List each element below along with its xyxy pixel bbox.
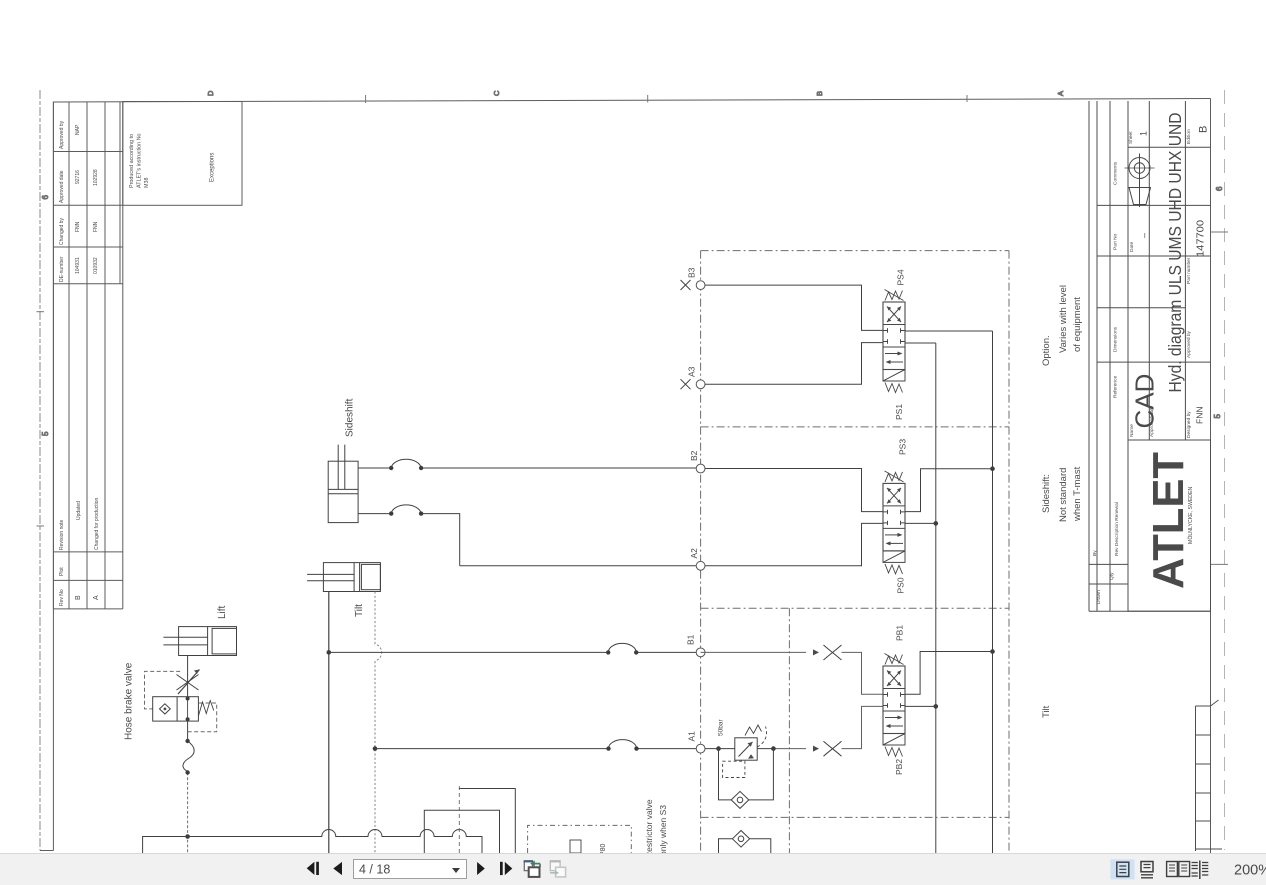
svg-text:FNN: FNN — [93, 221, 99, 232]
hose brake restrictor X — [177, 670, 200, 695]
svg-text:A2: A2 — [689, 548, 699, 559]
port A2 — [696, 561, 705, 570]
svg-text:Part number: Part number — [1186, 257, 1192, 284]
ATLET logo — [1144, 452, 1194, 589]
port A3 — [696, 380, 705, 389]
svg-text:B1: B1 — [686, 634, 696, 645]
annotation Sideshift note — [1041, 466, 1083, 522]
ATLET logo box — [1128, 440, 1211, 611]
wire PS4 T-port to tank line — [905, 342, 936, 344]
svg-text:Qty: Qty — [1109, 572, 1115, 580]
pressure line P (vertical) — [992, 331, 994, 853]
relief valve 50bar at A1 — [723, 725, 767, 778]
svg-text:Tilt: Tilt — [354, 604, 365, 617]
junction PS3/tank line — [934, 521, 939, 526]
check valve bypass at A1 — [719, 749, 774, 809]
svg-text:PS4: PS4 — [896, 269, 906, 285]
svg-text:Approved by: Approved by — [1186, 330, 1192, 358]
port A1 — [696, 744, 705, 753]
valve PS4/PS1 — [883, 290, 905, 393]
sheet right outer trim edge — [1224, 90, 1226, 850]
svg-text:Rev Description Renewal: Rev Description Renewal — [1114, 502, 1120, 556]
svg-text:50bar: 50bar — [718, 719, 725, 736]
svg-text:Reference: Reference — [1113, 376, 1119, 398]
wire tilt cylinder right port down (with hop over B1 line) — [375, 592, 382, 854]
svg-text:Varies with level: Varies with level — [1058, 285, 1069, 353]
svg-text:5: 5 — [1213, 414, 1222, 419]
wire A3 to valve PS1 — [705, 343, 883, 385]
svg-text:ATLET: ATLET — [1144, 452, 1193, 589]
svg-text:FNN: FNN — [75, 221, 81, 232]
svg-text:6: 6 — [1215, 186, 1224, 191]
svg-text:PS3: PS3 — [898, 439, 908, 455]
svg-text:Drawn: Drawn — [1096, 590, 1102, 604]
zone tick left 2 — [37, 525, 45, 527]
wire PS4 P-port to pressure line — [905, 330, 993, 332]
wire PS3 T-port to tank line — [905, 522, 936, 524]
section divider tilt/pump (dash-dot) — [701, 816, 1009, 818]
svg-text:–: – — [1139, 233, 1149, 238]
wire B2 to valve PS3 — [705, 469, 883, 512]
continuous scroll layout — [1141, 862, 1153, 878]
svg-text:B: B — [75, 595, 82, 600]
section divider option/sideshift (dash-dot) — [701, 426, 1009, 428]
junction tilt right / A1 line — [373, 746, 378, 751]
zone tick right 1 — [1211, 231, 1229, 233]
svg-text:Approved date: Approved date — [59, 170, 65, 203]
previous page button — [333, 862, 342, 875]
svg-text:Dimensions: Dimensions — [1113, 326, 1119, 352]
sheet right border — [1210, 99, 1212, 854]
svg-text:Sideshift: Sideshift — [345, 398, 356, 437]
hose symbol (S-curve) in lift line — [183, 739, 194, 775]
port B2 — [696, 464, 705, 473]
junction PS3/pressure line — [990, 466, 995, 471]
svg-text:010932: 010932 — [93, 257, 99, 274]
last page button — [500, 862, 512, 875]
zone tick top 1 — [365, 95, 367, 103]
svg-text:4 / 18: 4 / 18 — [359, 863, 390, 877]
valve block boundary left (dash-dot) — [700, 251, 702, 853]
plug X at A3 — [681, 379, 691, 389]
restrictor X on A1 wire — [824, 741, 842, 756]
wire PB1 T-port to tank line — [905, 705, 936, 707]
svg-text:6: 6 — [41, 195, 50, 200]
next view icon (disabled) — [550, 860, 566, 877]
wire PS3 P-port to pressure line — [905, 469, 993, 512]
internal divider vertical (dash-dot) — [788, 608, 790, 853]
bottom-right ladder table — [1196, 700, 1223, 851]
svg-text:Restrictor valve: Restrictor valve — [644, 799, 654, 858]
svg-text:Revision note: Revision note — [59, 519, 65, 550]
restrictor valve S3 dashed box — [528, 825, 632, 853]
svg-text:NAP: NAP — [75, 124, 81, 135]
svg-text:By: By — [1092, 550, 1098, 556]
svg-text:of equipment: of equipment — [1072, 297, 1083, 352]
wire A1 line (tilt right to port A1, with hose) — [375, 740, 696, 751]
svg-text:ATLET's instruction No: ATLET's instruction No — [137, 133, 143, 188]
svg-text:Rev No: Rev No — [59, 589, 65, 606]
projection symbol (first angle) — [1125, 154, 1155, 208]
wire A1 to valve PB2 — [773, 706, 883, 748]
svg-text:PS0: PS0 — [896, 577, 906, 593]
zone tick right 2 — [1211, 563, 1229, 565]
junction A1/relief right — [771, 746, 776, 751]
junction PB1/tank line — [934, 704, 939, 709]
svg-text:Tilt: Tilt — [1041, 705, 1052, 718]
svg-text:Updated: Updated — [76, 501, 82, 520]
port B3 — [696, 281, 705, 290]
plug X at B3 — [681, 280, 691, 290]
zone tick top 2 — [647, 95, 649, 103]
svg-text:A1: A1 — [687, 731, 697, 742]
svg-text:Date: Date — [1129, 242, 1135, 252]
manifold line bottom (with hops) — [143, 830, 482, 853]
svg-text:PS1: PS1 — [894, 404, 904, 420]
dropdown caret — [452, 868, 460, 873]
valve block boundary right (dash-dot) — [1008, 251, 1010, 853]
svg-text:104931: 104931 — [75, 257, 81, 274]
P80 symbol in S3 box — [570, 840, 607, 856]
svg-text:PB1: PB1 — [895, 625, 905, 641]
restrictor X on B1 wire — [824, 645, 842, 660]
svg-text:200%: 200% — [1234, 863, 1266, 879]
tank line T (vertical) — [935, 343, 937, 853]
svg-text:Part No: Part No — [1113, 233, 1119, 250]
svg-text:Changed for production: Changed for production — [94, 498, 100, 550]
svg-text:Changed by: Changed by — [59, 218, 65, 245]
sideshift cylinder — [328, 445, 358, 523]
zone tick left 1 — [37, 311, 45, 313]
wire B1 line (tilt left to port B1, with hose) — [329, 643, 696, 654]
wire lift cylinder down — [187, 656, 189, 740]
previous view icon — [524, 860, 540, 877]
svg-text:Approved by: Approved by — [59, 120, 65, 149]
svg-text:Option.: Option. — [1041, 335, 1052, 366]
wire sideshift bottom port to A2 (with hose) — [358, 505, 696, 566]
svg-text:D: D — [206, 90, 215, 96]
section divider sideshift/tilt (dash-dot) — [701, 607, 1009, 609]
wire A1 through relief valve — [705, 748, 773, 750]
title block small labels — [1092, 129, 1192, 604]
svg-text:B3: B3 — [687, 267, 697, 278]
revision table grid — [53, 102, 122, 609]
title block values — [1130, 113, 1210, 429]
svg-text:5: 5 — [41, 431, 50, 436]
svg-text:1: 1 — [1139, 131, 1149, 136]
svg-text:147700: 147700 — [1195, 220, 1207, 257]
manifold block A — [424, 810, 499, 853]
manifold block B — [458, 786, 460, 853]
svg-text:Not standard: Not standard — [1058, 468, 1069, 522]
bottom-left border join — [40, 850, 53, 852]
revision table header texts — [59, 120, 100, 606]
svg-text:CAD: CAD — [1130, 374, 1160, 429]
svg-text:PB2: PB2 — [894, 759, 904, 775]
svg-text:DE-number: DE-number — [59, 256, 65, 282]
page number input box — [354, 860, 467, 879]
svg-text:MÖLNLYCKE, SWEDEN: MÖLNLYCKE, SWEDEN — [1187, 486, 1194, 544]
junction PB1/pressure line — [990, 649, 995, 654]
lift cylinder — [163, 627, 236, 656]
svg-text:92716: 92716 — [75, 170, 81, 184]
svg-text:FNN: FNN — [1195, 407, 1205, 424]
svg-text:Hose brake valve: Hose brake valve — [124, 662, 135, 740]
hose brake valve body — [153, 697, 214, 722]
svg-text:Designed by: Designed by — [1186, 411, 1192, 438]
single page layout (active, highlighted) — [1111, 859, 1135, 879]
svg-text:A: A — [93, 595, 100, 600]
port B1 — [696, 648, 705, 657]
svg-text:B2: B2 — [689, 450, 699, 461]
sheet left outer border (trim) — [39, 90, 41, 851]
svg-text:M38: M38 — [144, 178, 150, 189]
wire B3 to valve PS4 — [705, 285, 883, 330]
svg-text:B: B — [1198, 126, 1210, 133]
title block grid — [1089, 101, 1211, 611]
arrow on B1 wire — [806, 649, 819, 655]
note box text — [129, 133, 216, 188]
svg-text:Produced according to: Produced according to — [129, 134, 135, 188]
valve block boundary top (dash-dot) — [701, 250, 1009, 252]
svg-text:A3: A3 — [687, 366, 697, 377]
svg-text:C: C — [492, 90, 501, 96]
svg-text:Plot: Plot — [59, 567, 65, 576]
svg-text:only when S3: only when S3 — [658, 805, 668, 856]
hose brake valve dashed enclosure — [145, 671, 217, 731]
two page continuous layout — [1192, 861, 1209, 880]
svg-text:Lift: Lift — [217, 605, 228, 619]
two page layout — [1167, 862, 1190, 877]
junction A1/relief left — [716, 746, 721, 751]
svg-text:Sheet: Sheet — [1128, 131, 1134, 144]
svg-text:Exceptions: Exceptions — [210, 153, 216, 182]
tilt cylinder — [307, 563, 380, 592]
junction hose brake line / manifold line — [185, 834, 190, 839]
valve PS3/PS0 — [883, 471, 905, 574]
wire A2 to valve PS0 — [705, 523, 883, 565]
svg-text:B: B — [815, 91, 824, 96]
svg-text:Edition: Edition — [1186, 129, 1192, 144]
check valve in pump section — [719, 831, 771, 854]
note box (Produced according to...) — [123, 102, 242, 206]
first page button — [307, 862, 319, 875]
svg-text:Sideshift:: Sideshift: — [1041, 474, 1052, 513]
next page button — [477, 862, 485, 875]
arrow on A1 wire — [806, 746, 819, 752]
svg-text:Comments: Comments — [1113, 161, 1119, 185]
svg-text:102928: 102928 — [93, 169, 99, 186]
wire PB1 P-port to pressure line — [905, 652, 993, 695]
junction tilt left / B1 line — [327, 650, 332, 655]
sheet top border line — [53, 99, 1210, 103]
wire B1 to valve PB1 — [701, 652, 883, 694]
svg-text:when T-mast: when T-mast — [1072, 466, 1083, 522]
svg-text:Hyd. diagram ULS UMS UHD UHX U: Hyd. diagram ULS UMS UHD UHX UND — [1165, 113, 1185, 393]
wire sideshift top port to B2 (with hose) — [358, 459, 696, 470]
svg-text:A: A — [1056, 91, 1065, 96]
zone tick top 3 — [966, 95, 968, 102]
wire tilt cylinder left port down — [328, 592, 330, 854]
valve PB1/PB2 — [883, 654, 905, 757]
annotation Option — [1041, 285, 1083, 366]
sheet left inner border — [52, 102, 54, 851]
